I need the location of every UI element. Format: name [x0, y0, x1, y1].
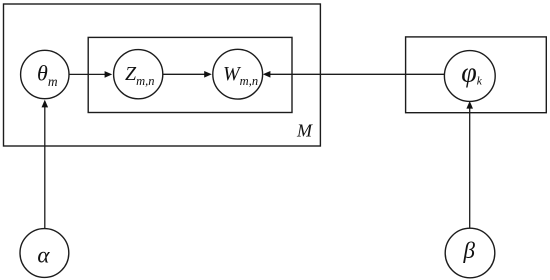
arrowhead into theta	[42, 100, 49, 108]
node Z_mn circle	[114, 50, 163, 99]
wire Z to W	[163, 73, 206, 75]
svg-text:Wm,n: Wm,n	[223, 63, 258, 88]
node W_mn circle	[213, 49, 263, 99]
plate N (inner rectangle)	[88, 37, 292, 112]
node alpha circle	[20, 229, 69, 278]
wire theta to Z	[69, 73, 105, 75]
svg-text:Zm,n: Zm,n	[125, 63, 155, 88]
node phi_k circle	[444, 51, 495, 102]
wire alpha to theta	[44, 106, 46, 229]
arrowhead into phi	[466, 101, 473, 109]
svg-text:α: α	[37, 242, 50, 267]
node beta circle	[445, 228, 495, 278]
wire beta to phi	[469, 107, 471, 228]
arrowhead into Z	[105, 71, 113, 78]
svg-text:θm: θm	[37, 61, 58, 90]
plate K (right rectangle)	[406, 37, 547, 113]
node theta_m circle	[21, 50, 69, 98]
svg-text:M: M	[296, 121, 313, 141]
svg-text:β: β	[463, 238, 476, 263]
arrowhead into W	[204, 71, 212, 78]
svg-text:φk: φk	[461, 58, 483, 89]
plate M (outer rectangle)	[4, 4, 321, 146]
wire phi to W	[269, 73, 444, 75]
arrowhead into W from phi	[263, 71, 271, 78]
